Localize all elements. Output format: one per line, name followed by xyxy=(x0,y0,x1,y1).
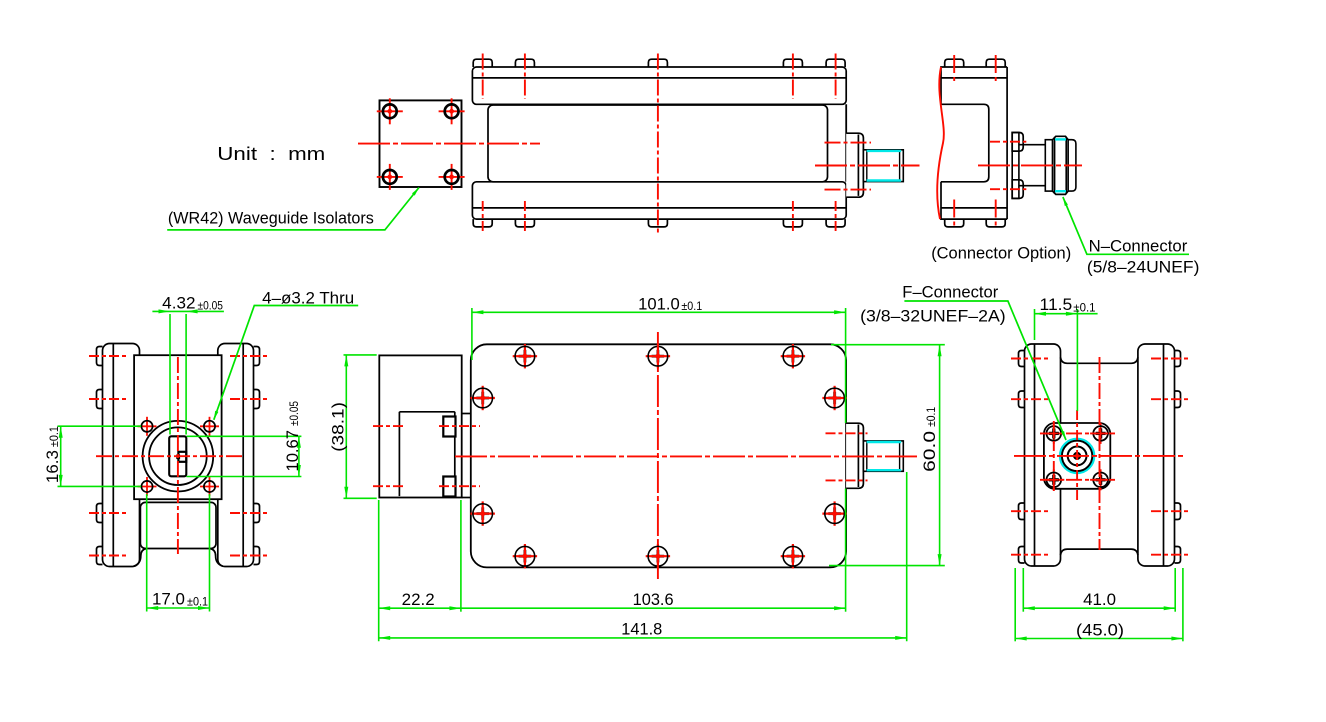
rear view: left tab centerline row 4 (red) xyxy=(1011,554,1048,556)
top view screw top row centre xyxy=(646,344,670,368)
svg-text:16.3: 16.3 xyxy=(44,450,62,483)
dimension 10.67 ext line top (green) xyxy=(187,435,302,437)
front view: left tab row 4 xyxy=(97,547,103,565)
side view: F-connector barrel thread line left xyxy=(866,150,868,181)
top view: F-connector barrel end line xyxy=(899,441,901,471)
svg-text:±0.1: ±0.1 xyxy=(187,594,208,608)
option view: N-connector neck bottom line xyxy=(1019,185,1045,187)
front view: waveguide boss outer circle xyxy=(143,421,214,492)
rear view: F-connector flange plate xyxy=(1044,423,1110,489)
front view: flange face plate xyxy=(134,355,222,499)
dimension 41.0 ext line right (green) xyxy=(1174,568,1176,612)
dimension 17.0 dim line (green) xyxy=(147,607,210,609)
side view: top screw tab 5 xyxy=(826,59,845,67)
front view: left tab centerline row 4 (red) xyxy=(89,555,126,557)
dimension 11.5 dim line (green) xyxy=(1035,313,1098,315)
side view flange screw bottom-right xyxy=(439,164,465,190)
dimension 22.2/103.6 shared ext line (green) xyxy=(460,500,462,612)
side view: top cover plate seam line xyxy=(472,77,846,79)
rear view: flange screw row top mark (red) xyxy=(1040,432,1115,434)
svg-text:(38.1): (38.1) xyxy=(330,402,348,452)
svg-text:22.2: 22.2 xyxy=(402,591,435,609)
top view screw lower side left xyxy=(471,501,495,525)
dimension 4.32 ext line right (green) xyxy=(185,314,187,435)
rear view: left tab centerline row 3 (red) xyxy=(1011,510,1048,512)
option view: connector ear mark bottom (red) xyxy=(990,188,1026,190)
dimension 17.0 ext line right (green) xyxy=(209,494,211,612)
rear view: connector insulator cyan ring xyxy=(1060,439,1094,473)
rear view: connector thread circle xyxy=(1068,447,1087,466)
dimension 41.0 dim line (green) xyxy=(1023,607,1175,609)
side view: F-connector flange block xyxy=(846,133,863,197)
option view: N-connector front ring xyxy=(1068,140,1076,191)
top view: horizontal centerline (red) xyxy=(455,455,920,457)
svg-text:141.8: 141.8 xyxy=(621,621,662,639)
option view: top tab centerline x=995.7 (red) xyxy=(995,55,997,85)
svg-text:(WR42) Waveguide Isolators: (WR42) Waveguide Isolators xyxy=(168,209,374,227)
option view: top cover plate fragment xyxy=(941,67,1007,104)
rear view: connector body outer circle xyxy=(1062,441,1092,471)
dimension (45.0) dim line (green) xyxy=(1015,638,1183,640)
side view: bottom screw tab 3 xyxy=(648,219,667,227)
side view: top tab screw centerline 3 (red) xyxy=(792,54,794,100)
dimension 11.5 ext line right (green) xyxy=(1076,309,1078,411)
option view: top tab centerline x=954.2 (red) xyxy=(953,55,955,85)
side view: top screw tab 3 xyxy=(648,59,667,67)
top view: waveguide flange block xyxy=(379,355,461,497)
option view: N-connector nut knurl line left xyxy=(1054,137,1056,194)
top view: F-connector flange block xyxy=(846,423,863,488)
option view: N-connector neck top line xyxy=(1019,144,1045,146)
top view: neck strip bottom edge xyxy=(462,497,471,499)
rear view: body vertical centerline (red) xyxy=(1099,357,1101,550)
rear view: left tab row 3 xyxy=(1019,503,1025,520)
top view: flange screw plane upper right mark (red) xyxy=(439,425,480,427)
dimension 141.8 dim line (green) xyxy=(379,637,907,639)
rear view: left tab row 2 xyxy=(1019,391,1025,408)
front view mounting hole bottom-right xyxy=(200,477,219,496)
top view: F-connector barrel cyan thread top xyxy=(867,441,902,443)
svg-text:(45.0): (45.0) xyxy=(1076,621,1124,639)
option view: bottom plate seam line xyxy=(941,207,1007,209)
svg-text:103.6: 103.6 xyxy=(633,591,674,609)
dimension 101.0 dim line (green) xyxy=(472,311,846,313)
front view: horizontal centerline (red) xyxy=(96,455,242,457)
svg-text:10.67: 10.67 xyxy=(284,430,302,472)
front view: right rail plate seam line xyxy=(242,344,244,566)
side view: bottom tab screw centerline 2 (red) xyxy=(524,201,526,234)
dimension 22.2 dim line (green) xyxy=(379,607,461,609)
dimension text 10.67 ±0.05 (rotated) xyxy=(284,401,302,472)
svg-text:±0.1: ±0.1 xyxy=(681,299,702,313)
side view: F-connector flange mark top (red) xyxy=(825,142,872,144)
side view: bottom screw tab 5 xyxy=(826,219,845,227)
option view: N-connector flange strip xyxy=(1012,133,1019,199)
top view screw top row left xyxy=(513,344,537,368)
dimension (38.1) ext line bottom (green) xyxy=(344,497,377,499)
side view: bottom screw tab 1 xyxy=(473,219,492,227)
rear view: right tab row 2 xyxy=(1175,391,1181,408)
side view: bottom tab screw centerline 1 (red) xyxy=(482,201,484,234)
rear view: connector inner conductor circle xyxy=(1074,453,1080,459)
option view: bottom screw tab at x=995.7 xyxy=(986,219,1005,227)
side view flange screw top-right xyxy=(439,98,465,124)
svg-text:(5/8–24UNEF): (5/8–24UNEF) xyxy=(1087,258,1200,276)
front view: right tab centerline row 1 (red) xyxy=(230,355,267,357)
front view: left rail xyxy=(103,344,140,567)
front view mounting hole top-right xyxy=(200,417,219,436)
dimension 11.5 ext line left (green) xyxy=(1034,309,1036,340)
svg-text:41.0: 41.0 xyxy=(1083,591,1116,609)
dimension 60.0 ext line bottom (green) xyxy=(829,565,945,567)
front view: left tab centerline row 2 (red) xyxy=(89,398,126,400)
front view mounting hole bottom-left xyxy=(138,477,157,496)
dimension 101.0/103.6 ext line right upper segment (green) xyxy=(845,308,847,423)
side view: central vertical centerline (red) xyxy=(657,54,659,234)
rear view: right tab row 1 xyxy=(1175,351,1181,367)
svg-text:N–Connector: N–Connector xyxy=(1089,238,1188,256)
front view: right tab row 1 xyxy=(254,347,260,366)
top view screw top row right xyxy=(781,344,805,368)
option view: connector ear mark top (red) xyxy=(990,141,1026,143)
top view: latch clip bottom xyxy=(443,477,455,497)
side view: top tab screw centerline 4 (red) xyxy=(835,54,837,100)
rear view: left tab row 1 xyxy=(1019,351,1025,367)
front view: waveguide boss inner circle xyxy=(149,427,207,485)
rear view: web top edge xyxy=(1061,357,1138,363)
svg-text:(Connector Option): (Connector Option) xyxy=(931,244,1071,262)
front view: lower web right flare to rail xyxy=(210,549,223,567)
side view: bottom cover plate xyxy=(472,182,846,219)
side view: top tab screw centerline 2 (red) xyxy=(524,54,526,100)
front view: lower web left flare to rail xyxy=(133,549,146,567)
rear view: flange screw row bottom mark (red) xyxy=(1040,479,1115,481)
front view: vertical centerline (red) xyxy=(177,357,179,554)
rear view: left tab centerline row 2 (red) xyxy=(1011,398,1048,400)
option view: N-connector nut cyan bottom xyxy=(1055,190,1066,192)
dimension 4.32 dim line with outside arrows (green) xyxy=(152,310,224,312)
front view: right rail xyxy=(218,344,254,567)
rear view flange screw top-left xyxy=(1043,423,1064,444)
dimension 141.8 ext line right (green) xyxy=(906,472,908,641)
rear view: right rail plate seam line xyxy=(1163,344,1165,565)
svg-text:(3/8–32UNEF–2A): (3/8–32UNEF–2A) xyxy=(860,308,1006,326)
side view: bottom cover plate seam line xyxy=(472,207,846,209)
side view: top screw tab 1 xyxy=(473,59,492,67)
side view: top screw tab 2 xyxy=(515,59,534,67)
top view screw bottom row right xyxy=(781,544,805,568)
dimension (38.1) dim line (green) xyxy=(345,355,347,498)
option view: bottom tab centerline x=954.2 (red) xyxy=(953,200,955,230)
leader line for 4-ø3.2 Thru (green) xyxy=(214,306,358,420)
leader line for F-Connector label (green) xyxy=(904,301,1066,440)
side view: F-connector barrel end line xyxy=(899,150,901,181)
front view: right tab centerline row 4 (red) xyxy=(230,555,267,557)
rear view: left screw column centerline (red) xyxy=(1053,421,1055,492)
leader line for N-Connector label (green) xyxy=(1063,197,1189,254)
rear view: web bottom edge xyxy=(1061,549,1138,555)
dimension 22.2/141.8 ext line left (green) xyxy=(378,500,380,641)
dimension 101.0 ext line left (green) xyxy=(471,308,473,360)
dimension text (38.1) (rotated) xyxy=(330,402,348,452)
front view: left tab centerline row 1 (red) xyxy=(89,355,126,357)
dimension 10.67 ext line bottom (green) xyxy=(187,476,302,478)
option view: top screw tab at x=954.2 xyxy=(945,59,964,67)
option view: top screw tab at x=995.7 xyxy=(986,59,1005,67)
top view screw bottom row left xyxy=(513,544,537,568)
option view: bottom cover plate fragment xyxy=(941,182,1007,219)
rear view: right tab centerline row 1 (red) xyxy=(1151,358,1188,360)
top view: F-connector flange mark top (red) xyxy=(826,432,868,434)
dimension 10.67 dim line (green) xyxy=(298,436,300,476)
rear view: right tab row 4 xyxy=(1175,547,1181,564)
front view: left tab row 3 xyxy=(97,504,103,523)
top view: flange screw plane lower right mark (red) xyxy=(439,485,480,487)
rear view: connector centre pin (red) xyxy=(1075,454,1078,457)
side view: body right end face edge xyxy=(845,104,847,182)
top view screw upper side right xyxy=(822,386,846,410)
front view: right tab row 2 xyxy=(254,390,260,409)
dimension 16.3 ext line top (green) xyxy=(58,425,142,427)
option view: N-connector centerline (red) xyxy=(978,164,1082,166)
svg-text:±0.1: ±0.1 xyxy=(47,426,61,447)
rear view flange screw bottom-right xyxy=(1090,469,1111,490)
side view: F-connector barrel cyan thread top xyxy=(867,150,902,152)
dimension 103.6 dim line (green) xyxy=(461,607,846,609)
svg-text:±0.05: ±0.05 xyxy=(198,298,224,312)
top view: flange screw plane lower left mark (red) xyxy=(373,485,406,487)
dimension (45.0) ext line right (green) xyxy=(1182,568,1184,641)
option view: body right face edge xyxy=(1006,67,1008,219)
top view: flange neck inner left edge xyxy=(398,412,400,496)
front view mounting hole top-left xyxy=(138,417,157,436)
front view: left tab centerline row 3 (red) xyxy=(89,512,126,514)
side view: waveguide flange plate xyxy=(380,100,462,187)
top view: F-connector threaded barrel xyxy=(863,441,903,471)
svg-text:17.0: 17.0 xyxy=(152,591,185,609)
side view: top screw tab 4 xyxy=(783,59,802,67)
top view: F-connector barrel cyan thread bottom xyxy=(867,469,902,471)
rear view: right tab centerline row 2 (red) xyxy=(1151,398,1188,400)
svg-text:60.0: 60.0 xyxy=(921,431,939,472)
front view: left tab row 2 xyxy=(97,390,103,409)
rear view: right rail xyxy=(1138,344,1175,566)
front view: waveguide aperture xyxy=(169,436,186,476)
svg-text:±0.1: ±0.1 xyxy=(924,407,938,427)
rear view: left rail xyxy=(1025,344,1061,566)
side view: bottom screw tab 2 xyxy=(515,219,534,227)
rear view flange screw bottom-left xyxy=(1043,469,1064,490)
side view: bottom screw tab 4 xyxy=(783,219,802,227)
option view: break line (red) xyxy=(937,67,944,219)
top view: main body xyxy=(471,344,846,567)
rear view: right tab row 3 xyxy=(1175,503,1181,520)
dimension 101.0/103.6 ext line right lower segment (green) xyxy=(845,489,847,612)
svg-text:11.5: 11.5 xyxy=(1040,296,1073,314)
front view: right tab row 3 xyxy=(254,504,260,523)
side view: F-connector barrel cyan thread bottom xyxy=(867,179,902,181)
option view: bottom screw tab at x=954.2 xyxy=(945,219,964,227)
side view: bottom tab screw centerline 4 (red) xyxy=(835,201,837,234)
rear view: left rail plate seam line xyxy=(1034,344,1036,565)
side view: top tab screw centerline 1 (red) xyxy=(482,54,484,100)
front view: left tab row 1 xyxy=(97,347,103,366)
top view: vertical centerline (red) xyxy=(657,332,659,581)
option view: N-connector nut cyan top xyxy=(1055,138,1066,140)
dimension 60.0 dim line (green) xyxy=(939,345,941,566)
side view: bottom tab screw centerline 3 (red) xyxy=(792,201,794,234)
top view screw lower side right xyxy=(822,501,846,525)
svg-text:±0.05: ±0.05 xyxy=(287,401,301,426)
option view: N-connector nut back ring xyxy=(1045,140,1052,191)
rear view: right tab centerline row 4 (red) xyxy=(1151,554,1188,556)
front view: lower body web block xyxy=(140,502,216,548)
side view: F-connector threaded barrel xyxy=(863,150,903,182)
rear view: right tab centerline row 3 (red) xyxy=(1151,510,1188,512)
dimension 16.3 ext line bottom (green) xyxy=(58,485,142,487)
top view screw upper side left xyxy=(471,386,495,410)
top view screw bottom row centre xyxy=(646,544,670,568)
top view: F-connector flange seam line xyxy=(857,425,859,488)
option view: web fragment xyxy=(941,104,989,182)
rear view flange screw top-right xyxy=(1090,423,1111,444)
front view: aperture ridge solid block xyxy=(176,455,180,460)
top view: flange neck inner right edge xyxy=(454,412,456,496)
side view: F-connector centerline (red) xyxy=(815,165,920,167)
rear view: left tab centerline row 1 (red) xyxy=(1011,358,1048,360)
rear view: horizontal centerline (red) xyxy=(1014,455,1185,457)
top view: F-connector flange mark bottom (red) xyxy=(826,479,868,481)
dimension text 60.0 ±0.1 (rotated) xyxy=(921,407,939,472)
dimension (45.0) ext line left (green) xyxy=(1014,568,1016,641)
side view: body web block xyxy=(488,105,828,182)
side view: horizontal centerline (red) xyxy=(358,143,540,145)
dimension (38.1) ext line top (green) xyxy=(344,354,377,356)
option view: top plate seam line xyxy=(941,77,1007,79)
front view: right tab row 4 xyxy=(254,547,260,565)
dimension 16.3 dim line (green) xyxy=(60,426,62,486)
option view: N-connector flange ear bottom xyxy=(1012,180,1023,199)
top view: latch clip top xyxy=(443,417,455,437)
dimension text 16.3 ±0.1 (rotated) xyxy=(44,426,62,483)
dimension 17.0 ext line left (green) xyxy=(146,494,148,612)
dimension 4.32 ext line left (green) xyxy=(169,314,171,435)
option view: N-connector flange ear top xyxy=(1012,133,1023,152)
option view: N-connector nut knurl line right xyxy=(1065,137,1067,194)
top view: neck strip top edge xyxy=(462,413,471,415)
top view: flange screw plane upper left mark (red) xyxy=(373,425,406,427)
top view: flange neck inner top edge xyxy=(399,411,454,413)
side view: F-connector flange seam line xyxy=(857,135,859,196)
side view: top cover plate xyxy=(472,67,846,104)
svg-text:4.32: 4.32 xyxy=(162,294,195,312)
leader line for (WR42) label (green) xyxy=(167,188,419,230)
dimension 60.0 ext line top (green) xyxy=(831,344,945,346)
side view: F-connector flange mark bottom (red) xyxy=(825,189,872,191)
front view: right tab centerline row 3 (red) xyxy=(230,512,267,514)
dimension 41.0 ext line left (green) xyxy=(1022,568,1024,612)
side view flange screw bottom-left xyxy=(377,164,403,190)
svg-text:101.0: 101.0 xyxy=(638,295,680,313)
option view: N-connector nut body xyxy=(1053,136,1069,194)
side view flange screw top-left xyxy=(377,98,403,124)
svg-text:±0.1: ±0.1 xyxy=(1073,300,1095,314)
svg-text:F–Connector: F–Connector xyxy=(902,283,999,301)
svg-text:Unit : mm: Unit : mm xyxy=(217,143,325,164)
option view: bottom tab centerline x=995.7 (red) xyxy=(995,200,997,230)
rear view: connector vertical centerline (red) xyxy=(1076,410,1078,502)
front view: right tab centerline row 2 (red) xyxy=(230,398,267,400)
front view: left rail plate seam line xyxy=(112,344,114,566)
rear view: left tab row 4 xyxy=(1019,547,1025,564)
front view: aperture ridge notch xyxy=(178,452,186,462)
top view: F-connector barrel thread line left xyxy=(866,441,868,471)
